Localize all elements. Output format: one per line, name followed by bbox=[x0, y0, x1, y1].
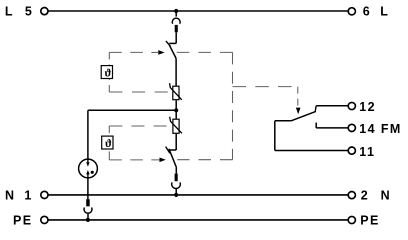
svg-text:5: 5 bbox=[25, 5, 33, 19]
dashed enclosure top edge right part bbox=[177, 51, 233, 53]
wire stub below L junction bbox=[175, 11, 177, 17]
svg-text:1: 1 bbox=[24, 189, 32, 203]
upper switch fixed contact bbox=[169, 42, 176, 44]
upper switch blade bbox=[169, 45, 176, 58]
wire to upper switch bbox=[175, 32, 177, 43]
relay contact 12 line bbox=[316, 105, 348, 107]
relay contact 11 line bbox=[275, 150, 348, 152]
spark gap gas dot bbox=[91, 171, 94, 174]
terminal circle PE right bbox=[348, 216, 355, 223]
varistor U2 diagonal bbox=[170, 117, 182, 134]
disconnect arc top bbox=[172, 18, 180, 24]
terminal circle 12 bbox=[348, 102, 355, 109]
terminal circle N1 bbox=[41, 191, 48, 198]
thermal sensor T1 box bbox=[101, 66, 112, 79]
terminal circle 6L bbox=[348, 8, 355, 15]
spark gap bottom electrode bbox=[87, 174, 89, 178]
thermal fuse bar PE bbox=[86, 199, 90, 206]
dashed enclosure bottom edge right part bbox=[177, 159, 232, 161]
dashed upper box left edge below theta bbox=[108, 79, 110, 92]
varistor U1 diagonal bbox=[170, 83, 182, 100]
svg-text:12: 12 bbox=[359, 100, 376, 114]
wire varistor2 to lower switch bbox=[175, 134, 177, 150]
lower switch contact tick bbox=[166, 147, 170, 154]
arrow at upper switch bbox=[158, 50, 164, 55]
terminal circle 14 bbox=[348, 124, 355, 131]
arrow shaft upper bbox=[152, 51, 158, 53]
disconnect arc lower bbox=[172, 182, 181, 188]
relay contact 12 tick bbox=[314, 106, 317, 112]
dashed enclosure top edge left part bbox=[109, 51, 152, 53]
terminal circle 2N bbox=[348, 192, 355, 199]
svg-text:N: N bbox=[381, 189, 391, 203]
varistor U2 body bbox=[173, 119, 179, 133]
svg-text:2: 2 bbox=[361, 189, 369, 203]
wire N rail bbox=[48, 194, 348, 196]
arrow at lower switch bbox=[160, 158, 166, 163]
wire horizontal to spark gap branch bbox=[88, 109, 176, 111]
dashed enclosure bottom edge left part bbox=[109, 159, 159, 161]
lower switch blade bbox=[169, 149, 177, 168]
relay contact 14 tick bbox=[315, 123, 317, 128]
wire varistor1-varistor2 bbox=[175, 110, 177, 118]
wire spark gap to PE bbox=[87, 178, 89, 199]
wire switch to varistor1 bbox=[175, 58, 177, 85]
wire arc to N rail bbox=[175, 189, 177, 195]
dashed upper box bottom edge bbox=[109, 91, 168, 93]
thermal sensor T2 box bbox=[102, 136, 113, 149]
thermal fuse bar lower bbox=[175, 174, 178, 182]
dashed upper box left edge above theta bbox=[108, 52, 110, 65]
relay contact 14 line bbox=[316, 127, 348, 129]
svg-text:L: L bbox=[5, 5, 14, 19]
dashed enclosure right edge bbox=[232, 52, 234, 159]
node junction on N rail bbox=[174, 193, 178, 197]
relay blade bbox=[291, 111, 316, 121]
svg-text:11: 11 bbox=[359, 145, 375, 159]
wire PE rail bbox=[48, 219, 348, 221]
disconnect arc PE bbox=[84, 208, 92, 214]
wire blade to bar bbox=[175, 168, 177, 174]
thermal sensor T1 theta glyph bbox=[105, 69, 111, 77]
node junction on L rail bbox=[174, 9, 178, 13]
wire spark gap branch vertical bbox=[87, 110, 89, 159]
terminal circle PE left bbox=[41, 216, 48, 223]
dashed lower box left edge below theta bbox=[108, 149, 110, 160]
svg-text:PE: PE bbox=[360, 213, 379, 227]
spark gap F1 circle bbox=[79, 159, 98, 178]
dashed lower box left edge above theta bbox=[108, 126, 110, 136]
wire varistor1 to node bbox=[175, 100, 177, 110]
thermal sensor T2 theta glyph bbox=[105, 139, 111, 147]
dashed control line horizontal bbox=[233, 86, 298, 88]
svg-text:L: L bbox=[380, 5, 389, 19]
upper switch contact tick bbox=[166, 41, 171, 47]
thermal fuse bar top bbox=[175, 25, 178, 32]
svg-text:N: N bbox=[5, 189, 15, 203]
dashed control line vertical bbox=[297, 87, 299, 108]
lower switch fixed contact bbox=[169, 149, 176, 151]
terminal circle 11 bbox=[348, 147, 355, 154]
relay common vertical bbox=[274, 121, 276, 151]
relay pivot horizontal bbox=[275, 120, 291, 122]
varistor U1 body bbox=[173, 86, 179, 100]
spark gap bottom arrowhead bbox=[86, 170, 90, 174]
svg-text:6: 6 bbox=[363, 5, 371, 19]
wire arc to PE rail bbox=[87, 213, 89, 220]
terminal circle L5 bbox=[41, 8, 48, 15]
spark gap top arrowhead bbox=[86, 162, 90, 166]
wire L rail bbox=[48, 10, 348, 12]
node junction mid bbox=[174, 108, 178, 112]
arrow at relay contact bbox=[296, 108, 301, 115]
svg-text:PE: PE bbox=[13, 213, 32, 227]
dashed lower box top edge bbox=[109, 125, 166, 127]
node junction on PE rail bbox=[86, 218, 90, 222]
svg-text:14 FM: 14 FM bbox=[359, 122, 401, 136]
spark gap top electrode bbox=[87, 159, 89, 163]
